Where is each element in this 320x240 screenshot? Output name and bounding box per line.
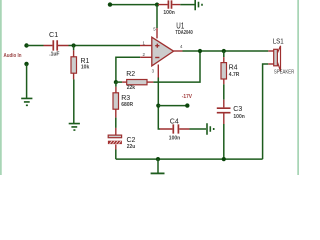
wire R1 to ground [73,79,75,123]
node junction feedback R2/R3 [114,80,118,84]
node junction output/feedback [198,49,202,53]
node junction rail/C3 [222,157,226,161]
wire -17V stub [158,105,187,107]
wire C1 to pin1 [69,45,141,47]
svg-text:SPEAKER: SPEAKER [274,69,295,75]
svg-text:C2: C2 [127,137,136,144]
node dot above audio ground [24,62,28,66]
node junction output/R4 [222,49,226,53]
op-amp U1 triangle [152,37,174,66]
wire C4 to ground terminal [190,128,207,130]
svg-text:Audio In: Audio In [4,53,22,59]
wire pin2 to feedback node [116,57,140,82]
node audio-in terminal dot [24,43,28,47]
capacitor C2 electrolytic bottom plate (hatched) [108,141,122,144]
speaker LS1 box [274,49,278,66]
capacitor C1 leads [44,45,69,47]
wire to audio ground [26,64,28,98]
svg-text:U1: U1 [176,21,184,30]
node junction C1/R1 [72,43,76,47]
pin 2 red stub [140,56,152,58]
node top-rail left end dot [108,2,112,6]
pin 3 red stub [157,65,159,78]
ground terminal (rotated) C4 [207,123,214,135]
node junction -17V tap [156,104,160,108]
node -17V end dot [185,103,189,107]
resistor R2 body [127,80,147,85]
capacitor C3 lead bottom [223,114,225,125]
resistor R4 body [221,63,227,79]
resistor R4 lead bottom [223,79,225,84]
resistor R4 lead top [223,51,225,57]
resistor R1 lead top [73,46,75,51]
capacitor C1 plates [53,40,57,50]
capacitor C3 lead top [223,100,225,108]
op-amp plus mark [155,44,159,48]
svg-text:100n: 100n [169,136,180,142]
capacitor C4 plates [173,124,178,133]
pin 1 red stub [140,45,152,47]
wire ground stem [157,159,159,173]
svg-text:100n: 100n [233,114,244,120]
wire top rail to decoupling cap [110,4,157,6]
resistor R1 body [71,57,77,73]
wire to ground terminal [180,4,194,6]
svg-text:.1uF: .1uF [49,52,59,58]
pin 4 red stub (output) [174,50,183,52]
capacitor C3 plates [217,108,231,113]
resistor R3 lead top [115,82,117,87]
wire R4 to C3 [223,84,225,99]
svg-text:10k: 10k [81,65,90,71]
speaker LS1 top lead [268,50,273,52]
svg-text:TDA2040: TDA2040 [175,30,193,36]
svg-text:R3: R3 [121,95,130,102]
svg-text:4.7R: 4.7R [229,72,240,78]
wire C3 to bottom rail [223,124,225,159]
svg-text:C4: C4 [170,119,179,126]
svg-text:R4: R4 [229,65,238,72]
capacitor C5 plates [168,0,171,8]
wire R3 to C2 [115,118,117,128]
speaker LS1 cone [277,46,280,71]
svg-text:-17V: -17V [182,94,192,100]
svg-text:680R: 680R [121,102,133,108]
op-amp minus mark [155,57,159,59]
ground (bottom rail) [151,172,165,174]
ground (below R1) [69,124,80,131]
ground (audio input) [21,98,32,105]
wire feedback to output [153,51,200,82]
wire pin3 down to C4 corner [158,78,160,130]
resistor R3 lead bottom [115,109,117,117]
svg-text:22k: 22k [127,85,136,91]
wire C2 to bottom rail [115,150,117,160]
svg-text:100n: 100n [163,10,174,16]
resistor R3 body [113,93,119,109]
wire speaker bottom to rail [263,64,269,159]
ground terminal (rotated) top [195,0,202,10]
wire audio-in to C1 [27,45,44,47]
capacitor C5 leads [158,4,180,6]
node junction rail/ground [156,157,160,161]
wire bottom rail [116,158,263,160]
svg-text:C3: C3 [233,106,242,113]
capacitor C2 lead top [115,128,117,135]
wire output to speaker [183,50,269,52]
speaker LS1 bottom lead [268,63,273,65]
capacitor C2 lead bottom [115,144,117,149]
svg-text:R2: R2 [126,71,135,78]
capacitor C2 electrolytic top plate [108,135,121,138]
pin 5 red stub [156,28,158,38]
node junction pin5/top-rail [155,3,159,7]
svg-text:22u: 22u [127,144,136,150]
wire pin5 drop green [156,5,158,29]
resistor R1 lead bottom [73,73,75,79]
resistor R2 lead left [116,81,122,83]
capacitor C4 leads [160,128,190,130]
svg-text:C1: C1 [49,30,58,39]
svg-text:LS1: LS1 [273,37,284,46]
resistor R2 lead right [147,81,153,83]
